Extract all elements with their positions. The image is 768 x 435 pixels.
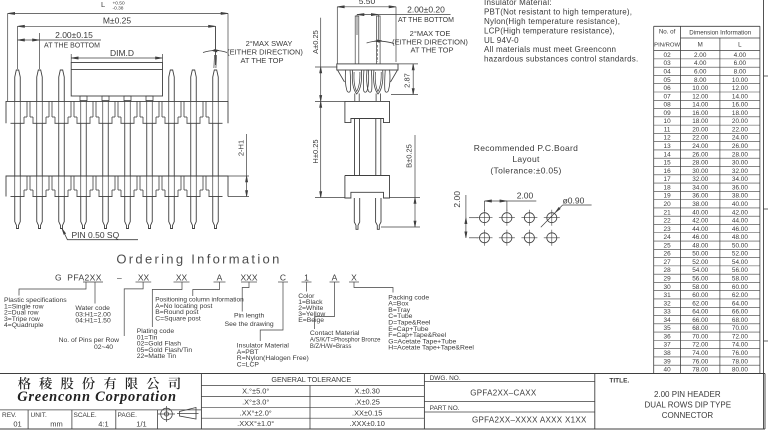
side: cap plate — [337, 64, 398, 70]
svg-text:30.00: 30.00 — [732, 160, 748, 167]
svg-text:GPFA2XX–XXXX AXXX X1XX: GPFA2XX–XXXX AXXX X1XX — [472, 415, 587, 424]
svg-text:17: 17 — [664, 176, 672, 183]
svg-text:70.00: 70.00 — [732, 325, 748, 332]
dimension A±0.25 — [320, 18, 322, 102]
svg-text:Recommended P.C.Board: Recommended P.C.Board — [474, 143, 578, 153]
svg-text:13: 13 — [664, 143, 672, 150]
svg-text:78.00: 78.00 — [692, 367, 708, 374]
svg-text:60.00: 60.00 — [692, 292, 708, 299]
svg-text:52.00: 52.00 — [692, 259, 708, 266]
svg-text:1/1: 1/1 — [136, 420, 146, 429]
leader: water code — [94, 282, 96, 304]
svg-text:40.00: 40.00 — [732, 201, 748, 208]
svg-text:TITLE.: TITLE. — [609, 378, 629, 385]
svg-text:28: 28 — [664, 267, 672, 274]
svg-text:10: 10 — [664, 118, 672, 125]
dimension 5.50 — [336, 7, 338, 64]
svg-text:X.±0.30: X.±0.30 — [354, 387, 379, 396]
svg-text:Insulator Material:: Insulator Material: — [484, 0, 552, 7]
svg-text:25: 25 — [664, 242, 672, 249]
svg-text:CONNECTOR: CONNECTOR — [662, 411, 714, 420]
svg-text:12.00: 12.00 — [692, 93, 708, 100]
svg-text:.XX±0.15: .XX±0.15 — [352, 408, 382, 417]
dimension information table — [654, 25, 760, 27]
side: top housing — [345, 101, 390, 122]
svg-text:2.00±0.15: 2.00±0.15 — [55, 30, 93, 40]
svg-text:H=Acetate Tape+Tape&Reel: H=Acetate Tape+Tape&Reel — [388, 345, 474, 352]
svg-text:2.00: 2.00 — [694, 52, 707, 59]
svg-text:PBT(Not resistant to high: PBT(Not resistant to high temperature), — [484, 8, 632, 17]
svg-text:XX: XX — [176, 273, 188, 283]
svg-text:05: 05 — [664, 77, 672, 84]
svg-text:37: 37 — [664, 342, 672, 349]
housing strip y=101.4 — [6, 101, 228, 123]
svg-text:14: 14 — [664, 151, 672, 158]
svg-text:H±0.25: H±0.25 — [311, 139, 320, 163]
svg-text:16.00: 16.00 — [732, 102, 748, 109]
svg-text:68.00: 68.00 — [732, 317, 748, 324]
svg-text:04: 04 — [664, 68, 672, 75]
zone tick marks — [764, 75, 768, 77]
svg-text:30: 30 — [664, 284, 672, 291]
leader: plating code — [152, 282, 182, 327]
svg-text:18.00: 18.00 — [732, 110, 748, 117]
svg-text:A: A — [217, 273, 223, 283]
svg-text:18: 18 — [664, 184, 672, 191]
svg-text:2.00: 2.00 — [452, 191, 462, 208]
svg-text:40.00: 40.00 — [692, 209, 708, 216]
svg-text:L: L — [101, 0, 105, 9]
sway indication on last pin — [215, 26, 217, 65]
svg-text:6.00: 6.00 — [734, 60, 747, 67]
svg-text:G: G — [55, 273, 62, 283]
svg-text:20.00: 20.00 — [692, 126, 708, 133]
svg-text:04:H1=1.50: 04:H1=1.50 — [75, 318, 111, 325]
svg-text:39: 39 — [664, 358, 672, 365]
svg-text:70.00: 70.00 — [692, 333, 708, 340]
svg-text:2-H1: 2-H1 — [237, 140, 246, 156]
svg-text:46.00: 46.00 — [732, 226, 748, 233]
PCB hole pattern — [480, 213, 490, 223]
dwg no / part no cell — [424, 381, 594, 383]
svg-text:UNIT.: UNIT. — [31, 412, 47, 419]
svg-text:REV.: REV. — [2, 412, 17, 419]
svg-text:4:1: 4:1 — [98, 420, 108, 429]
svg-text:10.00: 10.00 — [692, 85, 708, 92]
svg-text:09: 09 — [664, 110, 672, 117]
svg-text:.XXX±0.10: .XXX±0.10 — [350, 419, 385, 428]
svg-text:All materials must meet Gr: All materials must meet Greenconn — [484, 45, 616, 54]
svg-text:08: 08 — [664, 102, 672, 109]
svg-text:hazardous substances control: hazardous substances control standards. — [484, 55, 638, 64]
svg-text:B±0.25: B±0.25 — [405, 144, 414, 168]
svg-text:4.00: 4.00 — [734, 52, 747, 59]
front view: dual row pin header — [6, 63, 228, 229]
svg-text:30.00: 30.00 — [692, 168, 708, 175]
svg-text:C: C — [280, 273, 286, 283]
svg-text:80.00: 80.00 — [732, 367, 748, 374]
svg-text:54.00: 54.00 — [732, 259, 748, 266]
svg-text:.XX°±2.0°: .XX°±2.0° — [240, 408, 272, 417]
side: top pins — [355, 16, 359, 64]
svg-text:44.00: 44.00 — [692, 226, 708, 233]
leader: positioning column — [193, 282, 220, 296]
middle pin shafts — [14, 123, 16, 176]
dimension B±0.25 — [414, 135, 416, 227]
svg-text:28.00: 28.00 — [732, 151, 748, 158]
toe indication arc — [367, 41, 394, 43]
svg-text:01: 01 — [13, 420, 21, 429]
leader: packing code — [354, 282, 393, 293]
svg-text:See the drawing: See the drawing — [225, 321, 274, 328]
svg-text:Dimension Information: Dimension Information — [689, 30, 751, 37]
svg-text:Pin length: Pin length — [234, 313, 264, 320]
svg-text:33: 33 — [664, 309, 672, 316]
svg-text:AT THE TOP: AT THE TOP — [410, 46, 453, 55]
svg-text:8.00: 8.00 — [734, 68, 747, 75]
svg-text:40: 40 — [664, 367, 672, 374]
svg-text:36.00: 36.00 — [692, 193, 708, 200]
leader: plastic specifications — [19, 282, 86, 296]
svg-text:12: 12 — [664, 135, 672, 142]
pick-up cap (DIM.D block) — [71, 63, 162, 97]
svg-text:66.00: 66.00 — [692, 317, 708, 324]
dimension 2.00±0.15 AT THE BOTTOM — [39, 33, 41, 69]
svg-text:Layout: Layout — [512, 154, 540, 164]
svg-text:GENERAL TOLERANCE: GENERAL TOLERANCE — [271, 375, 351, 384]
svg-text:23: 23 — [664, 226, 672, 233]
svg-text:46.00: 46.00 — [692, 234, 708, 241]
svg-text:52.00: 52.00 — [732, 251, 748, 258]
leader: pin length — [242, 282, 249, 312]
svg-text:26.00: 26.00 — [732, 143, 748, 150]
side: cap claws — [352, 70, 361, 94]
svg-text:GPFA2XX–CAXX: GPFA2XX–CAXX — [470, 388, 537, 397]
side view of header — [337, 16, 398, 229]
svg-text:2.00: 2.00 — [517, 191, 534, 201]
svg-text:M±0.25: M±0.25 — [103, 16, 132, 26]
svg-text:14.00: 14.00 — [732, 93, 748, 100]
svg-text:60.00: 60.00 — [732, 284, 748, 291]
svg-text:22=Matte Tin: 22=Matte Tin — [137, 353, 177, 360]
leader: insulator material — [260, 282, 283, 341]
PIN 0.50 SQ label — [62, 229, 138, 240]
svg-text:2.87: 2.87 — [403, 73, 412, 88]
svg-text:20: 20 — [664, 201, 672, 208]
dimension L with tolerance — [7, 13, 9, 101]
svg-text:C=LCP: C=LCP — [237, 361, 260, 368]
svg-text:22: 22 — [664, 218, 672, 225]
PCB dim 2.00 vertical — [465, 195, 467, 238]
svg-text:32: 32 — [664, 300, 672, 307]
svg-text:22.00: 22.00 — [732, 126, 748, 133]
svg-text:X.°±5.0°: X.°±5.0° — [242, 387, 269, 396]
frustum symbol — [180, 408, 197, 420]
svg-text:24: 24 — [664, 234, 672, 241]
svg-text:X: X — [351, 273, 357, 283]
svg-text:74.00: 74.00 — [692, 350, 708, 357]
svg-text:42.00: 42.00 — [692, 218, 708, 225]
svg-text:76.00: 76.00 — [732, 350, 748, 357]
svg-text:64.00: 64.00 — [732, 300, 748, 307]
dimension H±0.25 — [320, 101, 322, 197]
svg-text:2.00 PIN HEADER: 2.00 PIN HEADER — [654, 390, 721, 399]
svg-text:L: L — [738, 42, 742, 49]
svg-text:68.00: 68.00 — [692, 325, 708, 332]
side: toe dashed line — [377, 20, 379, 40]
svg-text:20.00: 20.00 — [732, 118, 748, 125]
side: tails — [354, 198, 359, 229]
bottom tails — [15, 197, 21, 229]
svg-text:E=Beige: E=Beige — [298, 317, 324, 324]
third angle projection symbol — [161, 408, 173, 420]
svg-text:PIN 0.50 SQ: PIN 0.50 SQ — [72, 230, 120, 240]
svg-text:PFA2XX: PFA2XX — [67, 273, 102, 283]
svg-text:10.00: 10.00 — [732, 77, 748, 84]
svg-text:15: 15 — [664, 160, 672, 167]
svg-text:72.00: 72.00 — [692, 342, 708, 349]
svg-text:5.50: 5.50 — [359, 0, 376, 6]
svg-text:36.00: 36.00 — [732, 184, 748, 191]
svg-text:16: 16 — [664, 168, 672, 175]
svg-text:02: 02 — [664, 52, 672, 59]
svg-text:32.00: 32.00 — [692, 176, 708, 183]
dimension 2.87 — [398, 63, 418, 65]
svg-text:50.00: 50.00 — [732, 242, 748, 249]
company cell — [0, 409, 201, 411]
svg-text:.X°±3.0°: .X°±3.0° — [242, 397, 269, 406]
svg-text:72.00: 72.00 — [732, 333, 748, 340]
svg-text:62.00: 62.00 — [732, 292, 748, 299]
svg-text:12.00: 12.00 — [732, 85, 748, 92]
svg-text:DWG. NO.: DWG. NO. — [430, 375, 461, 382]
svg-text:6.00: 6.00 — [694, 68, 707, 75]
svg-text:PIN/ROW: PIN/ROW — [654, 43, 680, 49]
svg-text:mm: mm — [50, 420, 63, 429]
svg-text:AT THE BOTTOM: AT THE BOTTOM — [398, 17, 454, 24]
svg-text:50.00: 50.00 — [692, 251, 708, 258]
svg-text:38: 38 — [664, 350, 672, 357]
svg-text:XX: XX — [138, 273, 150, 283]
svg-text:8.00: 8.00 — [694, 77, 707, 84]
svg-text:02~40: 02~40 — [94, 344, 113, 351]
svg-text:24.00: 24.00 — [692, 143, 708, 150]
svg-text:07: 07 — [664, 93, 672, 100]
svg-text:32.00: 32.00 — [732, 168, 748, 175]
svg-text:AT THE TOP: AT THE TOP — [240, 56, 283, 65]
svg-text:28.00: 28.00 — [692, 160, 708, 167]
side: middle pins — [354, 119, 356, 176]
housing strip y=176.0 — [6, 176, 228, 197]
svg-text:Contact Material: Contact Material — [310, 330, 360, 337]
leader: contact material — [315, 282, 335, 329]
svg-text:2.00±0.20: 2.00±0.20 — [407, 4, 445, 14]
rev/unit/scale/page row — [27, 410, 29, 429]
svg-text:34: 34 — [664, 317, 672, 324]
svg-text:PART NO.: PART NO. — [430, 405, 460, 412]
svg-text:-0.38: -0.38 — [113, 5, 124, 11]
svg-text:58.00: 58.00 — [732, 275, 748, 282]
svg-text:34.00: 34.00 — [732, 176, 748, 183]
svg-text:27: 27 — [664, 259, 672, 266]
svg-text:58.00: 58.00 — [692, 284, 708, 291]
svg-text:74.00: 74.00 — [732, 342, 748, 349]
leader: color — [306, 282, 308, 292]
svg-text:AT THE BOTTOM: AT THE BOTTOM — [44, 43, 100, 50]
svg-text:.X±0.25: .X±0.25 — [354, 397, 379, 406]
dimension 2.00±0.20 AT THE BOTTOM (top pins) — [356, 15, 358, 35]
svg-text:36: 36 — [664, 333, 672, 340]
svg-text:62.00: 62.00 — [692, 300, 708, 307]
top pins — [15, 70, 21, 101]
svg-text:PAGE.: PAGE. — [118, 412, 138, 419]
svg-text:LCP(High temperature resista: LCP(High temperature resistance), — [484, 26, 615, 35]
svg-text:A: A — [332, 273, 338, 283]
dimension DIM.D — [70, 54, 72, 63]
svg-text:29: 29 — [664, 275, 672, 282]
svg-text:11: 11 — [664, 126, 671, 133]
svg-text:22.00: 22.00 — [692, 135, 708, 142]
svg-text:19: 19 — [664, 193, 672, 200]
svg-text:.XXX°±1.0°: .XXX°±1.0° — [237, 419, 274, 428]
dimension 2-H1 — [228, 175, 249, 177]
svg-text:DUAL ROWS DIP TYPE: DUAL ROWS DIP TYPE — [645, 401, 732, 410]
svg-text:56.00: 56.00 — [692, 275, 708, 282]
PCB dim 2.00 horizontal — [484, 201, 486, 211]
svg-text:38.00: 38.00 — [732, 193, 748, 200]
svg-text:06: 06 — [664, 85, 672, 92]
svg-text:76.00: 76.00 — [692, 358, 708, 365]
svg-text:A/S/K/T=Phosphor Bronze: A/S/K/T=Phosphor Bronze — [310, 338, 381, 344]
svg-text:78.00: 78.00 — [732, 358, 748, 365]
svg-text:XXX: XXX — [240, 273, 257, 283]
svg-text:66.00: 66.00 — [732, 309, 748, 316]
side: cap skirt chamfers — [338, 70, 345, 82]
general tolerance table — [201, 385, 424, 387]
svg-text:Nylon(High temperature resis: Nylon(High temperature resistance), — [484, 17, 620, 26]
svg-text:1: 1 — [304, 273, 309, 283]
svg-text:UL 94V-0: UL 94V-0 — [484, 36, 519, 45]
svg-text:SCALE.: SCALE. — [74, 412, 97, 419]
svg-text:03: 03 — [664, 60, 672, 67]
title block frame — [0, 373, 765, 375]
dimension M±0.25 — [17, 26, 19, 69]
svg-text:16.00: 16.00 — [692, 110, 708, 117]
svg-text:DIM.D: DIM.D — [110, 48, 134, 58]
svg-text:Greenconn Corporation: Greenconn Corporation — [17, 389, 177, 405]
svg-text:A±0.25: A±0.25 — [311, 30, 320, 54]
svg-text:35: 35 — [664, 325, 672, 332]
svg-text:4.00: 4.00 — [694, 60, 707, 67]
svg-text:4=Quadruple: 4=Quadruple — [4, 322, 44, 329]
page right border — [763, 0, 765, 429]
svg-text:(Tolerance:±0.05): (Tolerance:±0.05) — [490, 165, 561, 175]
svg-text:B/Z/H/W=Brass: B/Z/H/W=Brass — [310, 344, 352, 350]
svg-text:M: M — [698, 42, 703, 49]
svg-text:31: 31 — [664, 292, 672, 299]
company chinese name (glyph paths) — [18, 377, 31, 389]
svg-text:64.00: 64.00 — [692, 309, 708, 316]
svg-text:14.00: 14.00 — [692, 102, 708, 109]
svg-text:54.00: 54.00 — [692, 267, 708, 274]
svg-text:34.00: 34.00 — [692, 184, 708, 191]
svg-text:No. of: No. of — [659, 29, 676, 36]
svg-text:48.00: 48.00 — [732, 234, 748, 241]
svg-text:24.00: 24.00 — [732, 135, 748, 142]
code underlines — [83, 281, 103, 283]
svg-text:ø0.90: ø0.90 — [563, 196, 585, 206]
svg-text:Ordering Information: Ordering Information — [116, 252, 281, 267]
svg-text:–: – — [117, 273, 122, 283]
svg-text:48.00: 48.00 — [692, 242, 708, 249]
side: bottom housing — [345, 176, 390, 199]
leader: number of pins — [124, 282, 143, 336]
svg-text:42.00: 42.00 — [732, 209, 748, 216]
svg-text:26.00: 26.00 — [692, 151, 708, 158]
svg-text:38.00: 38.00 — [692, 201, 708, 208]
svg-text:56.00: 56.00 — [732, 267, 748, 274]
svg-text:18.00: 18.00 — [692, 118, 708, 125]
svg-text:44.00: 44.00 — [732, 218, 748, 225]
svg-text:26: 26 — [664, 251, 672, 258]
svg-text:C=Square post: C=Square post — [155, 315, 201, 322]
svg-text:21: 21 — [664, 209, 672, 216]
